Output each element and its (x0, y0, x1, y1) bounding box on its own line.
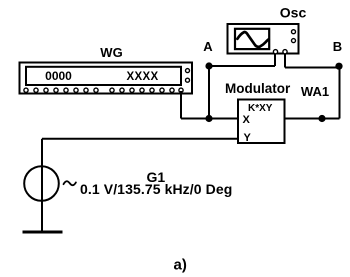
wire node A down to modulator X input (208, 66, 210, 119)
WG side terminals (186, 69, 190, 83)
svg-text:A: A (203, 39, 213, 54)
wire WG output down (180, 91, 182, 119)
svg-text:Modulator: Modulator (225, 81, 291, 96)
wire Osc channel-B lead down (284, 54, 286, 68)
wire WG to modulator X input (181, 118, 238, 120)
svg-text:B: B (333, 39, 342, 54)
G1 AC tilde symbol (64, 181, 76, 185)
oscilloscope Osc body (228, 24, 299, 54)
svg-text:X: X (243, 114, 251, 126)
svg-text:a): a) (174, 257, 187, 274)
WG front-panel terminals (left group) (24, 88, 98, 92)
wire Osc to node B (285, 67, 340, 69)
ground symbol (23, 231, 63, 234)
svg-text:Osc: Osc (280, 5, 307, 21)
WA1 terminal dot (318, 115, 325, 122)
Osc screen (235, 29, 269, 49)
svg-text:XXXX: XXXX (127, 71, 159, 83)
svg-text:0000: 0000 (45, 69, 72, 83)
svg-text:Y: Y (244, 132, 252, 144)
wire modulator output to WA1/B (285, 118, 340, 120)
junction dot at X input node (205, 115, 212, 122)
Osc side terminals (292, 30, 296, 43)
wire node A to Osc (209, 65, 275, 67)
node B junction dot (335, 63, 342, 70)
svg-text:0.1 V/135.75 kHz/0 Deg: 0.1 V/135.75 kHz/0 Deg (80, 181, 232, 197)
WG display window (26, 67, 181, 85)
wire Osc channel-A lead down (274, 54, 276, 67)
wire G1 to modulator Y input (42, 138, 238, 140)
Osc screen sine trace (237, 32, 268, 47)
Osc bottom terminals (273, 50, 287, 54)
svg-text:WG: WG (100, 45, 122, 60)
source G1 circle (24, 166, 59, 201)
WG front-panel terminals (right group) (110, 88, 183, 92)
wire node B down to output wire (339, 68, 341, 119)
node A junction dot (205, 62, 212, 69)
wire G1 vertical (41, 139, 43, 232)
svg-text:WA1: WA1 (301, 84, 329, 99)
svg-text:K*XY: K*XY (248, 103, 273, 114)
modulator body (238, 100, 285, 144)
waveform generator WG body (20, 63, 193, 94)
